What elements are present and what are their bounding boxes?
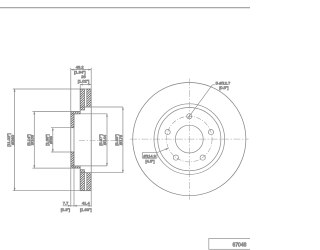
dim 49.2 extension left	[70, 68, 72, 112]
section centerline	[79, 139, 119, 141]
dim O144 extension bottom	[74, 165, 107, 167]
bolt hole upper-left	[165, 130, 170, 135]
part number box	[209, 238, 251, 249]
hat wall under surface	[74, 113, 80, 115]
dim 49.2 extension right	[90, 68, 92, 89]
disc outboard face	[79, 89, 81, 112]
dim O68 text	[44, 134, 53, 146]
svg-text:[0.5"]: [0.5"]	[219, 85, 228, 90]
svg-text:7.7: 7.7	[63, 200, 69, 205]
dim 26 line	[80, 84, 91, 86]
dim 49.2 line	[71, 69, 91, 71]
dim O144 text	[98, 134, 107, 146]
hat edge circle	[158, 108, 221, 171]
svg-text:67048: 67048	[232, 243, 246, 249]
dim 49.2 text	[74, 64, 86, 74]
dim O68 line	[52, 128, 54, 152]
flange mounting face	[70, 112, 72, 169]
svg-text:41.4: 41.4	[82, 200, 91, 205]
svg-text:[5.67"]: [5.67"]	[98, 134, 103, 146]
dim O68 extension top	[51, 127, 71, 129]
svg-text:49.2: 49.2	[76, 64, 85, 69]
disc inboard plate (hatched)	[70, 89, 109, 191]
dim O176 text	[114, 134, 123, 146]
braking surface inner circle	[154, 104, 225, 175]
disc outer edge top	[80, 88, 91, 90]
bolt circle label box	[142, 152, 157, 158]
bolt hole upper-right	[208, 130, 213, 135]
dim O280 line	[14, 89, 16, 191]
disc outer edge bottom	[80, 190, 91, 192]
dim O280 extension top	[13, 88, 80, 90]
bottom dim line	[63, 205, 92, 207]
vent web lines	[80, 106, 87, 108]
leader from box to bolt circle	[157, 148, 168, 152]
label O114.3	[143, 153, 155, 163]
horizontal centerline	[130, 138, 249, 140]
leader to bolt hole	[188, 85, 213, 119]
svg-text:[1.02"]: [1.02"]	[78, 78, 90, 83]
vertical centerline	[188, 79, 190, 200]
dim O156 extension top	[33, 111, 71, 113]
sheet top border	[0, 7, 250, 9]
hat wall (thin section)	[70, 112, 81, 169]
svg-text:[11.02"]: [11.02"]	[6, 133, 11, 147]
bolt hole lower-right	[200, 155, 205, 160]
dim 26 text	[78, 74, 90, 83]
dim O156 line	[33, 112, 35, 169]
dim O280 text	[6, 133, 15, 147]
svg-text:[6.14"]: [6.14"]	[26, 134, 31, 146]
bolt hole lower-left	[173, 155, 178, 160]
dim O176 line	[122, 107, 124, 173]
disc inboard face	[90, 89, 92, 191]
center bore circle	[175, 125, 203, 153]
bolt circle (dash-dot)	[167, 116, 213, 162]
bolt hole top	[187, 114, 192, 119]
svg-text:[0.3"]: [0.3"]	[61, 207, 70, 212]
dim 7.7 text	[61, 200, 70, 212]
dim O176 extension top	[85, 106, 123, 108]
dim O176 extension bottom	[85, 172, 123, 174]
dim 41.4 text	[80, 200, 92, 212]
outer circle	[133, 83, 246, 196]
dim O144 extension top	[74, 113, 107, 115]
svg-text:[1.63"]: [1.63"]	[80, 207, 92, 212]
label 5-O12.7	[216, 81, 231, 90]
dim 26 extension left	[79, 85, 81, 90]
flange inner face	[73, 114, 75, 166]
center bore surfaces	[71, 127, 74, 129]
hat wall top surface	[71, 111, 80, 113]
dim O68 extension bottom	[51, 151, 71, 153]
hat mounting flange (hatched)	[56, 112, 88, 169]
svg-text:[6.93"]: [6.93"]	[114, 134, 119, 146]
dim O156 text	[26, 134, 35, 146]
dim O144 line	[106, 114, 108, 166]
disc outboard plate (hatched)	[60, 89, 104, 191]
dim O156 extension bottom	[33, 167, 71, 169]
svg-text:Ø114.3: Ø114.3	[143, 153, 155, 158]
svg-text:[4.5"]: [4.5"]	[145, 159, 154, 164]
svg-text:[2.68"]: [2.68"]	[44, 134, 49, 146]
bottom dim extension lines	[70, 168, 72, 207]
dim O280 extension bottom	[13, 190, 80, 192]
